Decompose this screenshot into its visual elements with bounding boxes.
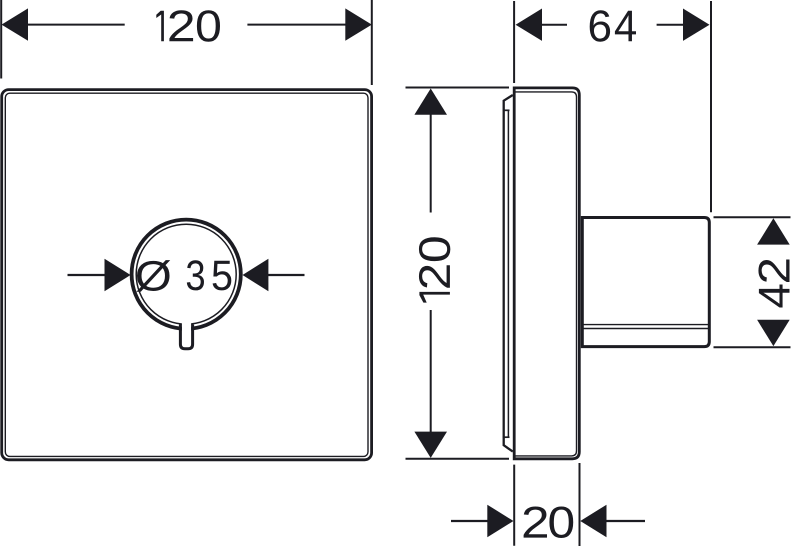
dim text "Ø 35" — [136, 260, 231, 292]
dim 120 top left extension line — [0, 0, 2, 79]
dim 64 line right segment — [657, 24, 684, 26]
dim text "42" (rotated) — [758, 259, 789, 307]
front plate inner contour — [5, 93, 368, 456]
handle hole inner circle — [136, 224, 236, 324]
dim 120 side line lower segment — [430, 310, 432, 432]
dim text "20" — [524, 506, 574, 538]
back flange inner edge — [507, 110, 509, 437]
dim "Ø 35" left leader line — [68, 274, 107, 276]
dim 64 right arrow — [683, 9, 710, 41]
knob outline — [582, 218, 709, 347]
side plate inner contour — [514, 92, 576, 456]
knob groove line upper — [582, 324, 708, 326]
dim 120 side top arrow — [414, 89, 447, 115]
dim 42 bottom arrow — [757, 320, 790, 346]
front plate outer outline — [2, 90, 372, 460]
dim 20 right arrow — [580, 505, 606, 538]
dim text "120" (side, rotated) — [419, 237, 450, 302]
back flange top tick — [503, 109, 510, 111]
dim 42 bottom extension line — [714, 346, 791, 348]
notch slot outline — [180, 325, 192, 349]
dim 64 right extension line — [710, 1, 712, 212]
dim 120 top right arrow — [345, 8, 372, 40]
dim 120 top left arrow — [2, 8, 29, 40]
dim 20 left arrow — [487, 505, 513, 538]
dim 20 left extension line — [513, 465, 515, 546]
side plate outer outline — [514, 88, 579, 459]
notch filler — [182, 316, 191, 347]
dim text "64" — [590, 10, 636, 41]
dim 42 top extension line — [714, 216, 791, 218]
dim 120 side bottom arrow — [414, 432, 447, 458]
back flange bottom tick — [503, 436, 510, 438]
dim 120 side line upper segment — [430, 114, 432, 213]
dim 20 right leader line — [606, 520, 645, 522]
dim 120 side bottom extension line — [406, 458, 510, 460]
dim 20 left leader line — [451, 520, 488, 522]
dim "Ø 35" right arrow — [243, 259, 269, 292]
dim 120 side top extension line — [406, 87, 510, 89]
dim 42 top arrow — [757, 218, 790, 244]
dim 64 left extension line — [513, 1, 515, 83]
dim 120 top line right segment — [247, 24, 346, 26]
dim "Ø 35" right leader line — [268, 274, 305, 276]
dim 120 top line left segment — [27, 24, 125, 26]
knob groove line lower — [582, 328, 708, 330]
dim text "120" (top) — [156, 10, 220, 41]
dim "Ø 35" left arrow — [105, 259, 131, 292]
dim 120 top right extension line — [371, 0, 373, 85]
dim 64 left arrow — [516, 9, 542, 41]
back flange outer profile — [504, 95, 513, 452]
dim 64 line left segment — [541, 24, 567, 26]
dim 20 right extension line — [579, 463, 581, 546]
handle hole outer circle — [132, 220, 241, 329]
